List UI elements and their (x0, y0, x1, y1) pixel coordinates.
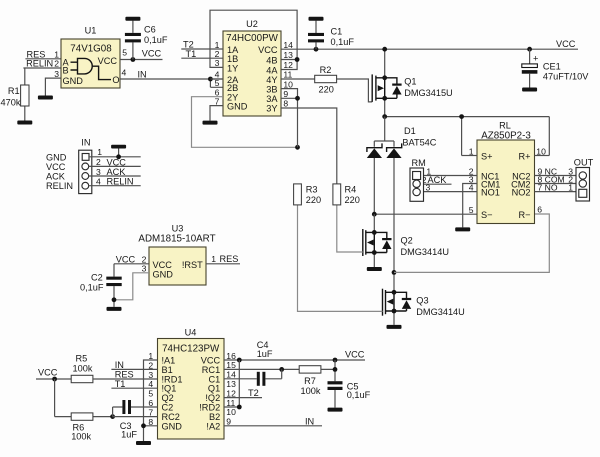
ground (IN pin 1, inverted) (111, 145, 126, 149)
IC U4 74HC123PW (148, 328, 236, 439)
ground (C2) (107, 307, 122, 311)
svg-text:R−: R− (518, 210, 530, 220)
node Q1 on VCC rail (382, 47, 387, 52)
svg-text:GND: GND (227, 102, 248, 112)
svg-text:R7: R7 (304, 376, 316, 386)
resistor R5 100k (71, 353, 157, 382)
node U4 pin 11 (237, 405, 242, 410)
svg-text:3B: 3B (266, 84, 277, 94)
wire RM pin 3 to RL pin 4 NO1 (420, 182, 477, 192)
svg-text:AZ850P2-3: AZ850P2-3 (481, 131, 531, 142)
wire U4 pin 16 VCC (224, 350, 365, 360)
svg-text:T1: T1 (186, 49, 197, 59)
node IN junction (208, 77, 213, 82)
wire R4 to Q2 gate (337, 205, 363, 252)
svg-text:RELIN: RELIN (46, 181, 73, 191)
wire RL pin 9 NC2 to OUT 3 (535, 166, 577, 176)
node U2 pin 13 (295, 57, 300, 62)
svg-text:R5: R5 (76, 353, 88, 363)
svg-text:RL: RL (499, 121, 511, 131)
svg-text:T2: T2 (248, 388, 259, 398)
svg-text:R+: R+ (518, 151, 530, 161)
wire relay supply node Q1 drain to S+/R+ (385, 117, 550, 156)
svg-text:RELIN: RELIN (107, 177, 134, 187)
node S+ branch (459, 114, 464, 119)
svg-text:VCC: VCC (153, 260, 173, 270)
node VCC / R5 / R6 (52, 377, 57, 382)
connector IN (46, 138, 92, 194)
wire net ACK from RM pin 2 (420, 175, 451, 185)
svg-text:5: 5 (122, 47, 127, 57)
resistor R3 220 (294, 184, 322, 205)
ground (CE1) (522, 88, 537, 92)
wire RL pin 3 CM1 to ground (463, 174, 477, 227)
svg-text:C1: C1 (331, 26, 343, 36)
wire U4 pin 15 RC1 to R7 (224, 368, 299, 370)
ground (R1) (17, 121, 32, 125)
svg-text:ADM1815-10ART: ADM1815-10ART (138, 234, 215, 245)
wire net IN to U4 pin 2 (111, 360, 157, 370)
wire U3 pin 3 GND bend (114, 263, 149, 299)
node Q2 drain (372, 230, 377, 235)
diode D1 BAT54C (367, 117, 437, 273)
wire S- from D1 anode to RL pin 5 (374, 213, 477, 215)
svg-text:4B: 4B (266, 55, 277, 65)
wire net T2 from U4 pin 12 (224, 388, 262, 398)
svg-text:DMG3415U: DMG3415U (404, 88, 453, 98)
svg-text:NO2: NO2 (512, 187, 531, 197)
svg-text:4Y: 4Y (266, 75, 277, 85)
svg-text:220: 220 (319, 84, 334, 94)
relay RL AZ850P2-3 (477, 121, 535, 224)
wire U2 pins 10/9 to R3 (281, 79, 298, 147)
node VCC at R7/C5 (333, 358, 338, 363)
wire net T2 to U2 pin 1 (181, 40, 223, 50)
svg-text:0,1uF: 0,1uF (331, 37, 355, 47)
svg-text:ACK: ACK (46, 171, 66, 181)
wire U3 pin 1 !RST net RES (206, 254, 240, 264)
svg-text:7 NO: 7 NO (538, 182, 558, 192)
wire U4 pin 11 tie to VCC (224, 360, 239, 407)
svg-text:47uFT/10V: 47uFT/10V (543, 72, 589, 82)
node Q3 source-diode (392, 309, 397, 314)
ground (Q2 source) (367, 267, 382, 271)
transistor Q2 DMG3414U (363, 214, 449, 267)
svg-text:74HC00PW: 74HC00PW (226, 33, 278, 44)
wire net T1 to U2 pin 2 (181, 49, 223, 59)
wire IN pin 4 net RELIN (89, 176, 141, 186)
capacitor C1 0,1uF (308, 21, 354, 50)
ground (CM1) (455, 227, 470, 231)
node IN pin 1 ground (116, 154, 121, 159)
svg-text:9: 9 (226, 417, 231, 427)
wire net VCC to U3 pin 2 (114, 254, 149, 264)
svg-text:IN: IN (115, 360, 124, 370)
wire U2 1Y to 4A/4B loop (210, 10, 297, 70)
svg-text:1: 1 (97, 147, 102, 157)
svg-text:R1: R1 (8, 86, 20, 96)
svg-text:IN: IN (138, 69, 147, 79)
node R7 right / C5 (333, 367, 338, 372)
svg-text:!RST: !RST (182, 260, 203, 270)
wire U2 2Y loop to R3 node (192, 88, 298, 148)
wire IN pin 1 to ground (89, 147, 141, 157)
capacitor C6 0,1uF (125, 21, 168, 60)
svg-text:VCC: VCC (258, 45, 278, 55)
wire RC2 to U4 pin 7 (113, 416, 158, 418)
svg-text:GND: GND (162, 421, 183, 431)
svg-text:DMG3414U: DMG3414U (416, 307, 465, 317)
svg-text:100k: 100k (301, 386, 321, 396)
wire net IN from U4 pin 9 (224, 416, 322, 426)
svg-text:BAT54C: BAT54C (402, 137, 436, 147)
node Q1 drain (382, 114, 387, 119)
svg-text:3Y: 3Y (266, 104, 277, 114)
svg-text:14: 14 (283, 40, 293, 50)
svg-text:4: 4 (469, 182, 474, 192)
node C2 / U3 GND (112, 297, 117, 302)
svg-text:13: 13 (283, 50, 293, 60)
svg-text:U1: U1 (85, 26, 97, 36)
svg-text:RES: RES (220, 254, 239, 264)
svg-text:4A: 4A (266, 65, 278, 75)
svg-text:CE1: CE1 (543, 61, 561, 71)
wire U1 pin 3 to ground (45, 69, 61, 96)
wire IN pin 2 net VCC (89, 157, 141, 167)
svg-text:R3: R3 (306, 184, 318, 194)
op-amp U1 74V1G08 AND gate (61, 26, 120, 89)
node RC1 / C4 (279, 367, 284, 372)
wire U2 pin 7 GND (210, 96, 223, 120)
node VCC at C6 (131, 57, 136, 62)
svg-text:VCC: VCC (142, 48, 162, 58)
wire U2 pin 8 3Y to R4 (281, 99, 337, 185)
wire RL pin 1 S+ stub (462, 146, 477, 156)
svg-text:U3: U3 (172, 223, 184, 233)
ground (C6 top) (125, 17, 140, 21)
svg-text:VCC: VCC (345, 350, 365, 360)
wire net IN from U1 pin 4 to U2 pins 2A/2B (120, 67, 223, 87)
svg-text:VCC: VCC (98, 56, 118, 66)
svg-text:ACK: ACK (428, 175, 448, 185)
svg-text:100k: 100k (71, 432, 91, 442)
svg-text:5: 5 (469, 205, 474, 215)
svg-text:VCC: VCC (556, 39, 576, 49)
svg-text:1uF: 1uF (121, 429, 137, 439)
resistor R7 100k (299, 360, 335, 396)
resistor R1 (1, 68, 30, 121)
svg-text:3: 3 (96, 167, 101, 177)
svg-text:OUT: OUT (574, 157, 594, 167)
svg-text:IN: IN (305, 416, 314, 426)
wire IN pin 3 net ACK (89, 167, 141, 177)
svg-text:VCC: VCC (107, 157, 127, 167)
svg-text:GND: GND (63, 76, 84, 86)
node Q3 drain / R- loop (392, 270, 397, 275)
svg-text:9: 9 (283, 89, 288, 99)
svg-text:11: 11 (283, 70, 292, 80)
svg-text:4: 4 (96, 176, 101, 186)
svg-text:VCC: VCC (38, 367, 58, 377)
wire net T1 to U4 pin 4 (111, 379, 157, 389)
svg-text:470k: 470k (1, 97, 21, 107)
svg-text:U4: U4 (185, 328, 197, 338)
node Q2 source (372, 250, 377, 255)
connector OUT (574, 157, 594, 201)
svg-text:O: O (112, 75, 119, 85)
IC U3 ADM1815-10ART (138, 223, 215, 285)
svg-text:4: 4 (122, 67, 127, 77)
ground (U4 GND) (136, 441, 151, 445)
svg-text:R2: R2 (320, 65, 332, 75)
node Q3 drain-diode (392, 290, 397, 295)
node Q1 source-diode bottom (382, 96, 387, 101)
node D1 left anode / Q2 drain / S- (372, 212, 377, 217)
svg-text:10: 10 (283, 79, 293, 89)
svg-text:100k: 100k (73, 364, 93, 374)
svg-text:+: + (533, 54, 538, 64)
wire RL pin 8 CM2 to OUT 2 (535, 174, 577, 184)
svg-text:3: 3 (54, 69, 59, 79)
svg-text:GND: GND (153, 270, 174, 280)
svg-text:S−: S− (481, 210, 493, 220)
svg-text:2: 2 (54, 59, 59, 69)
svg-text:S+: S+ (481, 151, 493, 161)
svg-text:Q2: Q2 (401, 236, 413, 246)
node Q1 drain-diode top (382, 75, 387, 80)
wire net RES to U1 pin 1 (25, 49, 61, 59)
svg-text:3A: 3A (266, 94, 278, 104)
svg-text:0,1uF: 0,1uF (144, 35, 168, 45)
wire RL pin 7 NO2 to OUT 1 (535, 182, 577, 192)
wire RM pin 1 to RL pin 2 NC1 (421, 166, 477, 176)
resistor R4 220 (333, 184, 360, 205)
capacitor C2 0,1uF (80, 264, 122, 307)
svg-text:1: 1 (469, 146, 474, 156)
svg-text:12: 12 (283, 60, 293, 70)
wire R- loop from RL pin 6 to Q3 drain (394, 205, 549, 273)
wire U4 pin 1 to GND rail (144, 360, 158, 441)
svg-text:1: 1 (211, 254, 216, 264)
svg-text:DMG3414U: DMG3414U (401, 247, 450, 257)
ground (Q3 source) (387, 325, 402, 329)
svg-text:1uF: 1uF (257, 349, 273, 359)
svg-text:R4: R4 (345, 184, 357, 194)
svg-text:B: B (63, 65, 69, 75)
svg-text:1: 1 (568, 182, 573, 192)
svg-text:2: 2 (96, 157, 101, 167)
capacitor C4 1uF (224, 340, 282, 386)
ground (U1 pin 3) (38, 96, 53, 100)
svg-text:T1: T1 (115, 379, 126, 389)
svg-text:220: 220 (345, 195, 360, 205)
ground (U2 pin 7) (203, 121, 218, 125)
wire net RELIN to U1 pin 2 (23, 59, 61, 69)
svg-text:RM: RM (412, 158, 426, 168)
svg-text:C6: C6 (144, 25, 156, 35)
svg-text:3: 3 (426, 182, 431, 192)
wire U2 pins 4/5 stubs (210, 70, 223, 89)
svg-text:D1: D1 (404, 126, 416, 136)
ground (C5) (328, 408, 343, 412)
svg-text:2B: 2B (227, 83, 238, 93)
resistor R6 100k (55, 379, 113, 442)
svg-text:7: 7 (215, 96, 220, 106)
node VCC at CE1 (527, 47, 532, 52)
node 2Y/3A/3B/R3 (295, 145, 300, 150)
wire net VCC bottom (36, 367, 71, 379)
svg-text:NO1: NO1 (481, 187, 500, 197)
node U4 pin 8 GND (141, 423, 146, 428)
svg-text:VCC: VCC (116, 254, 136, 264)
svg-text:8: 8 (283, 99, 288, 109)
capacitor C5 0,1uF (328, 381, 371, 407)
svg-text:!A2: !A2 (206, 421, 220, 431)
svg-text:74V1G08: 74V1G08 (70, 44, 112, 55)
node U2 pin 9 (295, 96, 300, 101)
svg-text:IN: IN (81, 138, 90, 148)
svg-text:U2: U2 (246, 19, 258, 29)
svg-text:VCC: VCC (46, 162, 66, 172)
resistor R2 220 (281, 65, 372, 102)
node VCC at C1 (314, 47, 319, 52)
wire R3 to Q3 gate (298, 205, 383, 312)
svg-text:ACK: ACK (107, 167, 127, 177)
svg-text:74HC123PW: 74HC123PW (162, 344, 220, 355)
svg-text:3: 3 (215, 58, 220, 68)
svg-text:1Y: 1Y (227, 63, 238, 73)
capacitor C3 1uF (113, 400, 158, 439)
wire U1 pin 5 VCC (120, 47, 163, 59)
capacitor CE1 47uFT/10V (522, 49, 589, 87)
svg-text:C2: C2 (91, 273, 103, 283)
svg-text:3: 3 (142, 263, 147, 273)
svg-text:10: 10 (536, 146, 546, 156)
wire VCC rail from U2 pin 14 (281, 39, 578, 50)
svg-text:0,1uF: 0,1uF (80, 283, 104, 293)
node R6 / C3 / RC2 (110, 414, 115, 419)
IC U2 74HC00PW (223, 19, 281, 116)
svg-text:Q3: Q3 (416, 295, 428, 305)
svg-text:220: 220 (306, 195, 321, 205)
wire RL pin 10 R+ stub (535, 146, 550, 156)
connector RM (410, 158, 426, 202)
transistor Q3 DMG3414U (383, 272, 465, 325)
svg-text:RELIN: RELIN (26, 59, 53, 69)
node VCC at pin16 branch (237, 358, 242, 363)
svg-text:Q1: Q1 (404, 77, 416, 87)
transistor Q1 DMG3415U (372, 49, 453, 116)
ground (C1 top) (309, 17, 324, 21)
svg-text:6: 6 (537, 205, 542, 215)
svg-text:0,1uF: 0,1uF (347, 390, 371, 400)
